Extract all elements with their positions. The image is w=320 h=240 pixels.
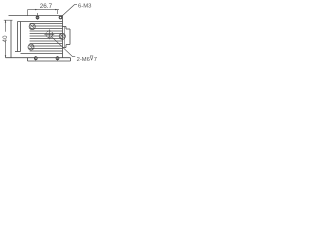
svg-text:26.7: 26.7 bbox=[40, 3, 53, 10]
svg-text:2-M6: 2-M6 bbox=[77, 57, 90, 63]
svg-text:40: 40 bbox=[2, 35, 9, 43]
svg-text:7: 7 bbox=[94, 57, 97, 63]
svg-text:6-M3: 6-M3 bbox=[78, 4, 92, 10]
